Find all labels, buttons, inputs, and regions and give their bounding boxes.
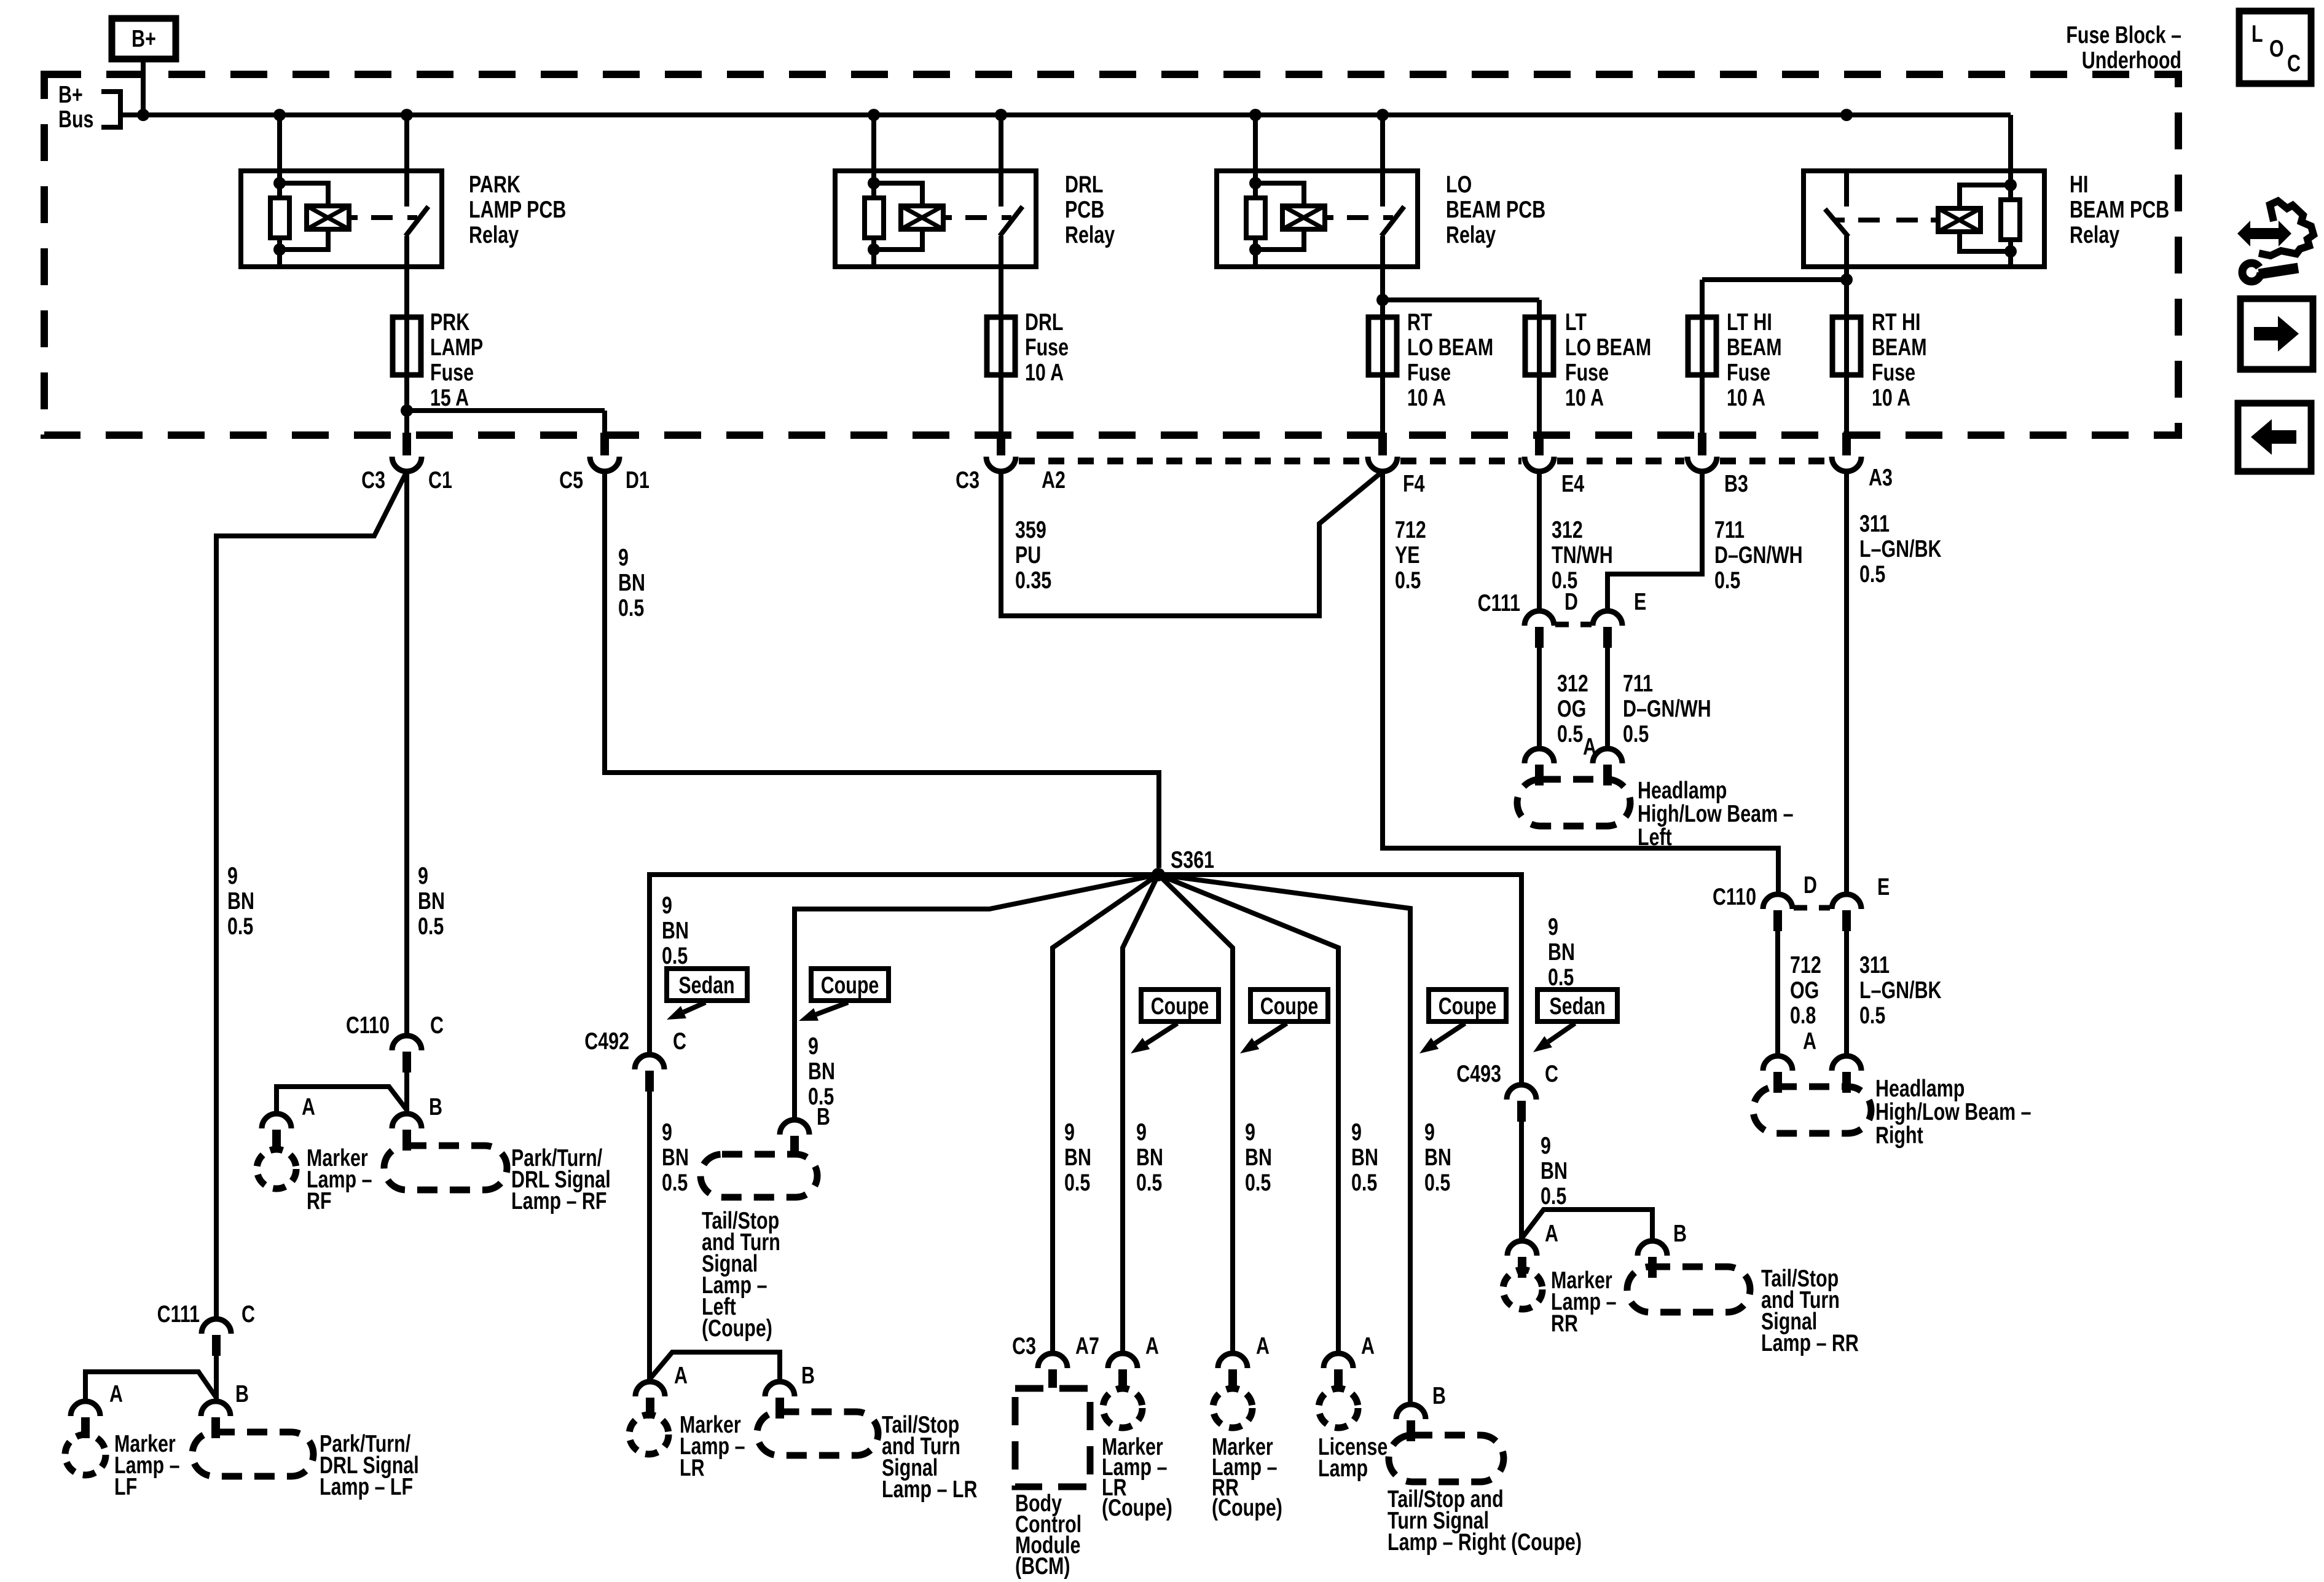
svg-text:Sedan: Sedan <box>1549 993 1605 1019</box>
svg-text:9: 9 <box>662 892 672 918</box>
svg-text:Coupe: Coupe <box>1439 993 1497 1019</box>
svg-text:(Coupe): (Coupe) <box>1102 1494 1172 1521</box>
svg-text:A: A <box>1361 1332 1375 1359</box>
svg-text:DRL: DRL <box>1065 171 1104 197</box>
svg-text:BN: BN <box>1245 1144 1272 1170</box>
svg-text:712: 712 <box>1790 951 1821 978</box>
svg-text:F4: F4 <box>1403 470 1425 497</box>
svg-text:PRK: PRK <box>430 309 469 335</box>
svg-text:Fuse: Fuse <box>430 359 474 385</box>
svg-text:BN: BN <box>1136 1144 1163 1170</box>
svg-text:0.5: 0.5 <box>418 913 444 939</box>
svg-text:Relay: Relay <box>2070 221 2120 248</box>
svg-text:RT HI: RT HI <box>1872 309 1920 335</box>
svg-text:Sedan: Sedan <box>678 972 734 998</box>
svg-text:9: 9 <box>1245 1119 1255 1145</box>
svg-text:9: 9 <box>662 1119 672 1145</box>
svg-text:BN: BN <box>1064 1144 1091 1170</box>
svg-text:LF: LF <box>114 1473 137 1500</box>
svg-text:L–GN/BK: L–GN/BK <box>1859 535 1941 562</box>
svg-text:C: C <box>241 1301 255 1327</box>
svg-text:A: A <box>302 1093 315 1120</box>
svg-text:9: 9 <box>1541 1132 1551 1159</box>
svg-text:0.5: 0.5 <box>1623 720 1649 747</box>
svg-text:0.5: 0.5 <box>1424 1169 1450 1195</box>
svg-text:A: A <box>1583 733 1596 760</box>
svg-text:BEAM: BEAM <box>1727 334 1782 360</box>
svg-text:L–GN/BK: L–GN/BK <box>1859 977 1941 1003</box>
svg-text:C3: C3 <box>1012 1332 1036 1359</box>
svg-text:Headlamp: Headlamp <box>1638 777 1727 803</box>
svg-text:A3: A3 <box>1869 464 1893 490</box>
svg-text:311: 311 <box>1859 510 1890 537</box>
svg-text:BN: BN <box>1424 1144 1451 1170</box>
svg-text:Bus: Bus <box>58 106 93 132</box>
svg-text:C111: C111 <box>1478 589 1520 616</box>
svg-text:B: B <box>817 1103 830 1130</box>
svg-text:Lamp – Right (Coupe): Lamp – Right (Coupe) <box>1388 1529 1582 1555</box>
svg-text:OG: OG <box>1790 977 1819 1003</box>
svg-text:C493: C493 <box>1456 1060 1501 1087</box>
svg-text:Fuse: Fuse <box>1727 359 1770 385</box>
svg-text:Lamp – LR: Lamp – LR <box>882 1476 977 1502</box>
svg-text:Fuse: Fuse <box>1025 334 1069 360</box>
svg-text:C3: C3 <box>956 466 979 493</box>
svg-text:B3: B3 <box>1724 470 1748 497</box>
svg-text:D: D <box>1564 588 1578 615</box>
svg-text:C: C <box>2287 50 2301 76</box>
svg-text:LO BEAM: LO BEAM <box>1407 334 1493 360</box>
svg-text:B: B <box>235 1380 249 1407</box>
svg-text:BN: BN <box>1548 939 1575 965</box>
svg-text:10 A: 10 A <box>1565 384 1604 411</box>
svg-text:B+: B+ <box>132 25 156 52</box>
svg-text:O: O <box>2269 35 2284 61</box>
svg-text:E4: E4 <box>1561 470 1585 497</box>
svg-text:Coupe: Coupe <box>821 972 879 998</box>
svg-text:0.5: 0.5 <box>662 942 688 969</box>
svg-text:A: A <box>1256 1332 1270 1359</box>
svg-text:LAMP: LAMP <box>430 334 483 360</box>
svg-text:BN: BN <box>662 917 689 943</box>
svg-text:9: 9 <box>1064 1119 1075 1145</box>
svg-text:C5: C5 <box>559 466 583 493</box>
svg-text:712: 712 <box>1395 516 1426 543</box>
svg-text:A: A <box>1803 1028 1816 1054</box>
svg-text:C: C <box>430 1012 444 1038</box>
svg-text:B: B <box>429 1093 442 1120</box>
svg-text:Headlamp: Headlamp <box>1875 1075 1965 1101</box>
svg-text:D–GN/WH: D–GN/WH <box>1623 695 1711 722</box>
svg-text:C492: C492 <box>584 1028 629 1054</box>
svg-text:9: 9 <box>618 544 629 570</box>
svg-text:0.5: 0.5 <box>1548 964 1574 990</box>
svg-text:E: E <box>1877 873 1890 900</box>
svg-text:Fuse Block –: Fuse Block – <box>2066 22 2181 48</box>
svg-text:D: D <box>1804 872 1817 898</box>
svg-text:BN: BN <box>808 1058 835 1084</box>
svg-text:C3: C3 <box>361 466 385 493</box>
svg-text:9: 9 <box>1136 1119 1147 1145</box>
svg-text:High/Low Beam –: High/Low Beam – <box>1875 1098 2032 1125</box>
svg-text:Left: Left <box>1638 824 1672 850</box>
svg-text:LAMP PCB: LAMP PCB <box>469 196 566 222</box>
svg-text:C: C <box>1545 1060 1558 1087</box>
svg-text:D–GN/WH: D–GN/WH <box>1714 541 1803 568</box>
svg-text:A: A <box>109 1380 123 1407</box>
svg-text:Lamp – RR: Lamp – RR <box>1761 1329 1859 1356</box>
svg-text:Coupe: Coupe <box>1260 993 1319 1019</box>
svg-text:PARK: PARK <box>469 171 520 197</box>
svg-text:Relay: Relay <box>469 221 519 248</box>
svg-text:10 A: 10 A <box>1025 359 1064 385</box>
svg-text:10 A: 10 A <box>1872 384 1910 411</box>
svg-text:L: L <box>2251 20 2263 47</box>
svg-text:Underhood: Underhood <box>2082 47 2181 73</box>
svg-text:Lamp: Lamp <box>1318 1455 1368 1481</box>
svg-text:0.5: 0.5 <box>1136 1169 1162 1195</box>
svg-text:LO: LO <box>1446 171 1472 197</box>
svg-text:311: 311 <box>1859 951 1890 978</box>
svg-text:RT: RT <box>1407 309 1432 335</box>
svg-text:Relay: Relay <box>1446 221 1496 248</box>
svg-text:A: A <box>1145 1332 1159 1359</box>
svg-text:0.5: 0.5 <box>227 913 253 939</box>
svg-text:0.35: 0.35 <box>1015 567 1051 593</box>
svg-text:(BCM): (BCM) <box>1015 1552 1070 1579</box>
svg-text:DRL: DRL <box>1025 309 1064 335</box>
svg-text:BN: BN <box>662 1144 689 1170</box>
svg-text:E: E <box>1634 588 1646 615</box>
svg-text:359: 359 <box>1015 516 1046 543</box>
svg-text:B: B <box>1432 1382 1446 1409</box>
svg-text:HI: HI <box>2070 171 2088 197</box>
svg-text:C: C <box>673 1028 686 1054</box>
svg-text:0.5: 0.5 <box>1064 1169 1090 1195</box>
svg-text:B: B <box>1673 1220 1687 1246</box>
svg-text:15 A: 15 A <box>430 384 469 411</box>
svg-text:C110: C110 <box>346 1012 390 1038</box>
svg-text:(Coupe): (Coupe) <box>1212 1494 1282 1521</box>
svg-text:0.5: 0.5 <box>1245 1169 1271 1195</box>
svg-text:BN: BN <box>418 887 445 914</box>
svg-text:PCB: PCB <box>1065 196 1104 222</box>
svg-text:0.5: 0.5 <box>1859 1002 1885 1028</box>
svg-text:OG: OG <box>1557 695 1586 722</box>
svg-text:0.8: 0.8 <box>1790 1002 1816 1028</box>
svg-text:Fuse: Fuse <box>1407 359 1451 385</box>
svg-text:TN/WH: TN/WH <box>1552 541 1613 568</box>
svg-text:RF: RF <box>307 1187 332 1214</box>
svg-text:0.5: 0.5 <box>618 594 644 621</box>
svg-text:Coupe: Coupe <box>1151 993 1209 1019</box>
svg-text:0.5: 0.5 <box>1714 567 1740 593</box>
svg-text:RR: RR <box>1551 1310 1578 1336</box>
svg-text:0.5: 0.5 <box>1859 561 1885 587</box>
svg-text:BN: BN <box>227 887 254 914</box>
svg-text:0.5: 0.5 <box>1541 1183 1566 1209</box>
svg-text:C1: C1 <box>428 466 452 493</box>
svg-text:Fuse: Fuse <box>1565 359 1609 385</box>
svg-text:9: 9 <box>808 1033 819 1059</box>
svg-text:C111: C111 <box>157 1301 200 1327</box>
svg-text:A7: A7 <box>1075 1332 1099 1359</box>
svg-text:S361: S361 <box>1171 846 1214 873</box>
svg-text:9: 9 <box>227 862 238 889</box>
svg-text:Fuse: Fuse <box>1872 359 1915 385</box>
svg-text:LT: LT <box>1565 309 1587 335</box>
svg-text:9: 9 <box>418 862 428 889</box>
svg-text:0.5: 0.5 <box>662 1169 688 1195</box>
svg-text:BEAM PCB: BEAM PCB <box>2070 196 2169 222</box>
svg-text:BEAM PCB: BEAM PCB <box>1446 196 1545 222</box>
svg-text:B+: B+ <box>58 81 83 108</box>
svg-text:C110: C110 <box>1713 883 1756 910</box>
svg-text:0.5: 0.5 <box>1557 720 1583 747</box>
svg-text:10 A: 10 A <box>1407 384 1446 411</box>
svg-text:9: 9 <box>1351 1119 1362 1145</box>
svg-text:A: A <box>674 1362 688 1388</box>
svg-text:Relay: Relay <box>1065 221 1115 248</box>
svg-text:BN: BN <box>618 569 645 596</box>
svg-text:(Coupe): (Coupe) <box>702 1315 772 1341</box>
svg-text:312: 312 <box>1552 516 1583 543</box>
svg-text:711: 711 <box>1714 516 1745 543</box>
svg-text:711: 711 <box>1623 670 1653 696</box>
svg-text:9: 9 <box>1424 1119 1435 1145</box>
svg-text:Lamp – LF: Lamp – LF <box>320 1473 413 1500</box>
svg-text:D1: D1 <box>626 466 650 493</box>
svg-text:B: B <box>801 1362 815 1388</box>
svg-text:BEAM: BEAM <box>1872 334 1927 360</box>
svg-text:A2: A2 <box>1042 466 1066 493</box>
svg-text:LR: LR <box>680 1454 705 1481</box>
svg-text:Right: Right <box>1875 1122 1923 1148</box>
svg-text:LO BEAM: LO BEAM <box>1565 334 1651 360</box>
svg-text:PU: PU <box>1015 541 1041 568</box>
svg-text:YE: YE <box>1395 541 1420 568</box>
svg-text:10 A: 10 A <box>1727 384 1765 411</box>
svg-text:Lamp – RF: Lamp – RF <box>511 1187 607 1214</box>
svg-text:0.5: 0.5 <box>1395 567 1421 593</box>
svg-text:A: A <box>1545 1220 1558 1246</box>
svg-text:0.5: 0.5 <box>1351 1169 1377 1195</box>
svg-text:BN: BN <box>1541 1157 1568 1184</box>
svg-text:BN: BN <box>1351 1144 1378 1170</box>
svg-text:312: 312 <box>1557 670 1588 696</box>
svg-text:High/Low Beam –: High/Low Beam – <box>1638 800 1794 827</box>
svg-text:9: 9 <box>1548 913 1558 940</box>
svg-text:LT HI: LT HI <box>1727 309 1772 335</box>
